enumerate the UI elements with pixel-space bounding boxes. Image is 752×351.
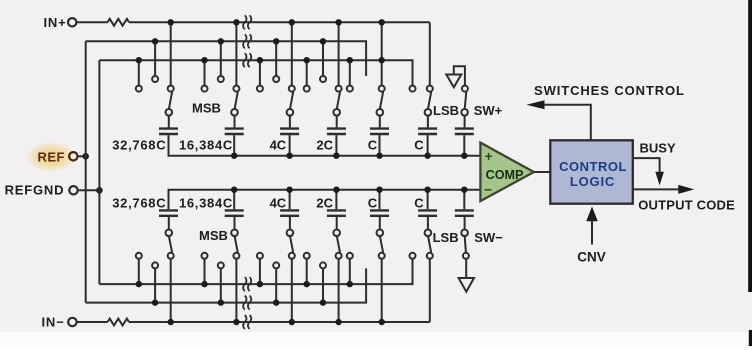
capacitor 2C (upper): [327, 127, 346, 129]
switch contacts bit cell 4 (lower): [304, 253, 310, 259]
svg-text:SWITCHES CONTROL: SWITCHES CONTROL: [534, 83, 685, 98]
wire REF terminal to REF vertical: [78, 155, 86, 157]
switch arm + pivot bit cell 1 (lower): [169, 236, 172, 253]
wire lower cap-array common bus to comparator -: [169, 190, 482, 210]
wire REF rail (upper): [86, 41, 366, 76]
wire drops for bit cell 1 (upper), REFGND/REF/IN+ contacts: [138, 60, 140, 85]
wire REFGND terminal to REFGND vertical: [78, 189, 100, 191]
switch arm + pivot bit cell 5 (upper): [380, 92, 383, 109]
wire cap lead to upper bus + junction: [463, 135, 465, 156]
switch arm + pivot bit cell 2 (upper): [235, 92, 238, 109]
svg-text:BUSY: BUSY: [640, 140, 676, 155]
switch arm + pivot bit cell 2 (lower): [235, 236, 238, 253]
capacitor 16,384C (lower): [225, 209, 244, 211]
svg-text:REFGND: REFGND: [5, 183, 65, 198]
switch contacts bit cell 6 / LSB (upper): [410, 86, 416, 92]
break mark on REFGND rail upper: [243, 53, 246, 67]
svg-text:MSB: MSB: [192, 101, 221, 116]
wire drops for bit cell 5 (upper), REFGND/REF/IN+ contacts: [349, 60, 351, 85]
svg-text:32,768C: 32,768C: [112, 137, 166, 152]
capacitor C (upper): [418, 127, 437, 129]
svg-text:SW−: SW−: [474, 230, 503, 245]
break mark on REF rail lower: [243, 296, 246, 310]
svg-text:IN+: IN+: [44, 15, 67, 30]
wire IN- rail: [129, 321, 430, 323]
switch contacts bit cell 1 (lower): [136, 253, 142, 259]
wire drops for bit cell 2 (upper), REFGND/REF/IN+ contacts: [204, 60, 206, 85]
capacitor C (upper): [370, 127, 389, 129]
wire drops for bit cell 3 (upper), REFGND/REF/IN+ contacts: [259, 60, 261, 85]
capacitor 2C (lower): [327, 209, 346, 211]
wire CNV input, arrow up into control logic: [591, 221, 593, 245]
svg-text:2C: 2C: [316, 137, 333, 152]
wire cap lead to upper bus + junction: [289, 135, 291, 156]
switch arm + pivot bit cell 4 (upper): [337, 92, 340, 109]
wire REFGND vertical bus: [98, 60, 100, 284]
wire cap lead to lower bus + junction: [289, 190, 291, 210]
wire cap lead to lower bus + junction: [427, 190, 429, 210]
wire REFGND rail (lower): [99, 259, 412, 284]
svg-text:32,768C: 32,768C: [112, 195, 166, 210]
svg-text:OUTPUT CODE: OUTPUT CODE: [638, 198, 735, 213]
break mark on IN- rail: [243, 315, 246, 329]
edge artifact bar (bottom): [749, 330, 752, 346]
switch contacts bit cell 1 (upper): [136, 86, 142, 92]
svg-text:LSB: LSB: [433, 230, 459, 245]
svg-text:C: C: [414, 195, 424, 210]
wire BUSY output, arrow down: [633, 158, 660, 173]
wire IN+ rail corner drop to cell6 contact: [429, 22, 431, 85]
wire comparator output to control logic: [534, 171, 550, 173]
switch arm + pivot bit cell 3 (lower): [290, 236, 293, 253]
svg-text:16,384C: 16,384C: [179, 195, 233, 210]
capacitor 16,384C (upper): [225, 127, 244, 129]
input symbol (open arrow) feeding SW+: [446, 75, 461, 88]
capacitor 32,768C (lower): [159, 209, 178, 211]
svg-text:C: C: [414, 137, 424, 152]
capacitor SW cap (upper): [455, 127, 474, 129]
svg-text:4C: 4C: [270, 137, 287, 152]
junction IN+ drop / REFGND rail (cell 5 upper): [379, 57, 385, 63]
switch arm + pivot bit cell 3 (upper): [290, 92, 293, 109]
wire drops for bit cell 2 (lower), REFGND/REF/IN- contacts: [204, 259, 206, 284]
capacitor 4C (lower): [280, 209, 299, 211]
break mark on REFGND rail lower: [243, 277, 246, 291]
wire OUTPUT CODE, arrow right: [633, 188, 680, 190]
wire cap lead to lower bus + junction: [335, 190, 337, 210]
svg-text:+: +: [485, 148, 493, 164]
wire drops for bit cell 5 (lower), REFGND/REF/IN- contacts: [349, 259, 351, 284]
wire IN- rail corner rise to cell6 contact: [429, 259, 431, 322]
svg-text:C: C: [368, 195, 378, 210]
switch contacts bit cell 2 (upper): [202, 86, 208, 92]
wire cap lead to lower bus + junction: [463, 190, 465, 210]
svg-text:REF: REF: [38, 150, 66, 165]
svg-text:C: C: [368, 137, 378, 152]
wire drops for bit cell 4 (upper), REFGND/REF/IN+ contacts: [306, 60, 308, 85]
wire cap lead to lower bus + junction: [233, 190, 235, 210]
wire upper cap-array common bus to comparator +: [169, 135, 482, 156]
wire REFGND rail (upper): [99, 60, 412, 85]
junction REF / vertical: [82, 153, 89, 160]
switch contacts bit cell 5 (upper): [347, 86, 353, 92]
switch SW- contact, arm, pivot: [465, 236, 466, 253]
capacitor C (lower): [418, 209, 437, 211]
control logic block U2: [550, 140, 633, 203]
svg-text:2C: 2C: [316, 195, 333, 210]
wire REF vertical bus: [85, 41, 87, 302]
wire drops for bit cell 3 (lower), REFGND/REF/IN- contacts: [259, 259, 261, 284]
switch arm + pivot bit cell 1 (upper): [169, 92, 172, 109]
svg-text:4C: 4C: [270, 195, 287, 210]
switch arm + pivot bit cell 5 (lower): [380, 236, 383, 253]
switch contacts bit cell 3 (lower): [257, 253, 263, 259]
switch arm + pivot bit cell 6 (upper): [428, 92, 431, 109]
switch contacts bit cell 5 (lower): [347, 253, 353, 259]
svg-text:SW+: SW+: [474, 103, 503, 118]
capacitor SW cap (lower): [455, 209, 474, 211]
capacitor 4C (upper): [280, 127, 299, 129]
wire cap lead to upper bus + junction: [335, 135, 337, 156]
resistor R_IN-: [77, 321, 108, 323]
switch SW+ contact, arm, pivot: [462, 86, 468, 92]
svg-text:IN−: IN−: [42, 315, 65, 330]
wire cap lead to upper bus + junction: [379, 135, 381, 156]
svg-text:COMP: COMP: [486, 168, 524, 182]
wire switches-control from control logic, arrow left: [543, 105, 591, 141]
switch arm + pivot bit cell 4 (lower): [337, 236, 340, 253]
break mark on REF rail upper: [243, 34, 246, 48]
wire cap lead to lower bus + junction: [379, 190, 381, 210]
svg-text:−: −: [484, 182, 492, 198]
capacitor C (lower): [370, 209, 389, 211]
break mark on IN+ rail: [243, 15, 246, 29]
resistor R_IN+: [76, 21, 107, 23]
wire IN+ rail: [129, 21, 430, 23]
wire cap lead to upper bus + junction: [233, 135, 235, 156]
wire cap lead to upper bus + junction: [427, 135, 429, 156]
svg-text:16,384C: 16,384C: [179, 137, 233, 152]
wire REF rail (lower): [86, 268, 366, 302]
svg-text:LSB: LSB: [433, 103, 459, 118]
svg-text:CNV: CNV: [577, 250, 606, 265]
switch contacts bit cell 3 (upper): [257, 86, 263, 92]
svg-text:CONTROL: CONTROL: [559, 159, 627, 174]
svg-text:MSB: MSB: [199, 228, 228, 243]
edge artifact bar (top): [748, 0, 752, 292]
switch contacts bit cell 4 (upper): [304, 86, 310, 92]
svg-text:LOGIC: LOGIC: [570, 174, 615, 189]
junction REFGND / vertical: [96, 187, 103, 194]
wire drops for bit cell 4 (lower), REFGND/REF/IN- contacts: [306, 259, 308, 284]
switch arm + pivot bit cell 6 (lower): [428, 236, 431, 253]
switch contacts bit cell 2 (lower): [202, 253, 208, 259]
op-amp comparator U1 (COMP): [480, 143, 534, 202]
switch contacts bit cell 6 / LSB (lower): [410, 253, 416, 259]
ground symbol below SW-: [465, 259, 467, 278]
capacitor 32,768C (upper): [159, 127, 178, 129]
wire drops for bit cell 1 (lower), REFGND/REF/IN- contacts: [138, 259, 140, 284]
